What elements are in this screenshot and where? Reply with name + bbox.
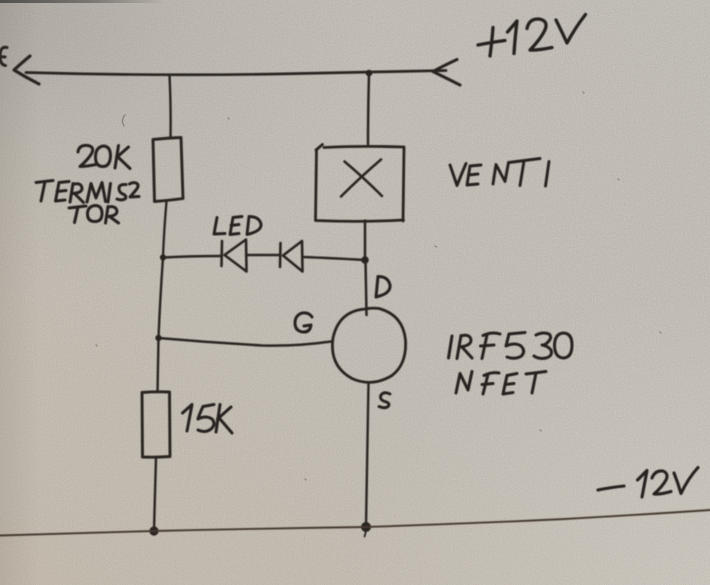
label IRF 530: [449, 333, 573, 359]
wire D2 to drain junction: [303, 257, 366, 260]
pin label D: [376, 277, 390, 298]
label LED: [214, 217, 261, 235]
wire MOSFET source to bottom rail: [366, 383, 369, 527]
pin label S: [379, 393, 390, 408]
label +12V: [478, 15, 586, 57]
partial letter G at left edge: [0, 47, 7, 65]
label 15K (resistor value): [183, 405, 233, 434]
label -12V: [598, 468, 698, 498]
node on rail above fan: [366, 70, 373, 77]
wire -12V rail: [0, 510, 710, 536]
resistor 15K body: [142, 392, 170, 457]
arrowhead right of +12V rail: [433, 60, 460, 86]
stray pen mark: [122, 115, 125, 126]
node A (thermistor / LED junction): [160, 254, 166, 260]
transistor Q1 IRF530 body: [332, 308, 405, 382]
wire rail to thermistor: [170, 76, 171, 138]
wire drain junction to MOSFET: [366, 260, 367, 315]
LED D2: [280, 241, 303, 272]
wire node A to LED D1: [163, 256, 221, 258]
node C (drain junction): [361, 256, 369, 264]
node B (gate junction): [155, 335, 161, 341]
label N FET: [456, 372, 546, 395]
wire thermistor to LED node: [163, 202, 167, 258]
wire node A to gate node: [159, 258, 164, 339]
label TERMISZ: [36, 181, 139, 203]
wire 15K to bottom rail: [154, 458, 156, 531]
wire rail to fan box: [368, 74, 369, 145]
node bottom left on -12V rail: [149, 526, 158, 535]
paper speck marks: [96, 92, 661, 480]
wire fan box to drain junction: [364, 221, 367, 261]
paper top edge shadow: [0, 0, 165, 3]
label 20K (thermistor value): [78, 145, 130, 168]
label TOR: [69, 206, 119, 224]
wire +12V rail: [26, 71, 446, 75]
wire gate node to MOSFET gate: [159, 338, 332, 346]
fan box M1 (VENTI): [316, 145, 405, 222]
fan X mark: [341, 160, 382, 197]
wire gate node to 15K resistor: [158, 338, 159, 392]
label VENTI: [450, 159, 549, 187]
arrowhead left of +12V rail: [14, 56, 39, 84]
wire D1 to D2: [247, 254, 280, 257]
node bottom (source) on -12V rail: [361, 522, 371, 537]
LED D1: [222, 240, 247, 272]
resistor 20K thermistor body: [153, 138, 183, 202]
pin label G: [295, 313, 312, 332]
